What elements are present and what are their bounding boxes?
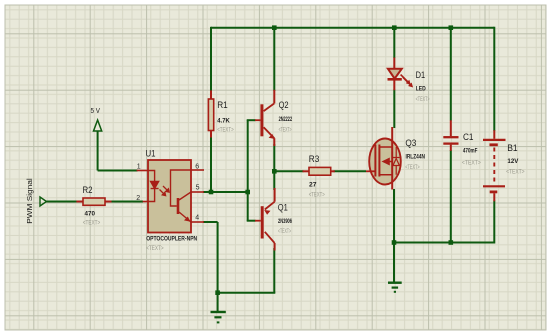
svg-text:2N3906: 2N3906 [278, 218, 292, 225]
wire: 5V stem [98, 131, 138, 171]
pin1 lead [137, 170, 148, 172]
wire: pin4 row [203, 221, 218, 223]
node: rail-D1 junction [392, 25, 397, 30]
svg-text:LED: LED [416, 85, 426, 92]
svg-text:Q3: Q3 [405, 138, 416, 149]
svg-text:4.7K: 4.7K [217, 117, 230, 124]
wire: Q2 collector column [273, 27, 275, 91]
svg-text:PWM Signal: PWM Signal [27, 178, 34, 224]
ground G2 [388, 243, 402, 292]
svg-text:<TEXT>: <TEXT> [83, 219, 101, 226]
svg-text:OPTOCOUPLER-NPN: OPTOCOUPLER-NPN [146, 235, 197, 242]
svg-text:Q1: Q1 [278, 202, 288, 213]
resistor R3 [303, 167, 335, 175]
internal phototransistor [171, 170, 192, 222]
wire: D1 to Q3 drain [393, 90, 395, 129]
power: 5V arrow [94, 120, 102, 131]
wire: D1 column upper [393, 27, 395, 58]
opto U1 [137, 160, 204, 233]
wire: base column vertical [247, 120, 249, 221]
internal LED [148, 171, 159, 202]
svg-text:6: 6 [195, 163, 199, 170]
wire: input to R2 [46, 201, 77, 203]
svg-text:Q2: Q2 [279, 100, 289, 111]
transistor Q1 [255, 188, 275, 251]
resistor R2 [76, 198, 111, 205]
wire: B1 column upper [493, 27, 495, 131]
wire: R3 row left [274, 170, 303, 172]
wire: R2 to pin2 [111, 201, 143, 203]
body [148, 160, 191, 233]
svg-text:470: 470 [85, 210, 96, 217]
svg-text:U1: U1 [146, 149, 156, 160]
svg-text:2N2222: 2N2222 [279, 116, 293, 123]
svg-text:5: 5 [196, 184, 200, 191]
wire: C1 column upper [450, 27, 452, 121]
node: C1-rail junction [449, 240, 454, 245]
wire: pin5 row horizontal [203, 191, 248, 193]
wire: B1 column lower [493, 201, 495, 244]
wire: bottom center horizontal [218, 292, 276, 294]
svg-text:R1: R1 [217, 100, 228, 111]
wire: top power rail [211, 27, 494, 29]
wire: C1 column lower [450, 150, 452, 243]
svg-text:<TEXT>: <TEXT> [146, 245, 164, 252]
svg-text:<TEXT>: <TEXT> [462, 159, 481, 166]
svg-text:<TEXT>: <TEXT> [278, 228, 291, 235]
svg-text:R3: R3 [309, 154, 320, 165]
pin2 lead [143, 201, 148, 203]
wire: pin4 column down [217, 222, 219, 293]
svg-text:5 V: 5 V [91, 108, 101, 115]
wire: R1 bottom to pin5 row [210, 137, 212, 193]
svg-text:1: 1 [137, 164, 141, 171]
svg-text:27: 27 [309, 181, 317, 188]
svg-text:2: 2 [136, 195, 140, 202]
node: pin4-ground junction [215, 290, 220, 295]
svg-text:R2: R2 [83, 185, 93, 196]
svg-text:C1: C1 [463, 132, 474, 143]
node: emitter-R3 junction [272, 169, 277, 174]
node: base column junction [245, 190, 250, 195]
wire: bottom right rail [394, 242, 494, 244]
wire: Q1 collector down [273, 248, 275, 293]
svg-text:<TEXT>: <TEXT> [309, 192, 325, 199]
node: R1-pin5 junction [209, 190, 214, 195]
wire: Q3 source down [393, 189, 395, 243]
svg-text:D1: D1 [416, 70, 426, 81]
node: rail-Q2 junction [272, 25, 277, 30]
LED D1 [388, 58, 413, 91]
svg-text:4: 4 [195, 215, 199, 222]
pin4 lead [191, 221, 204, 223]
pin6 lead [191, 169, 204, 171]
internal emission arrows [160, 186, 170, 196]
transistor Q2 [255, 90, 275, 146]
wire: Q2/Q1 emitter link [273, 144, 275, 190]
capacitor C1 [443, 120, 458, 151]
ground G1 [211, 293, 226, 323]
wire: R1 column upper [210, 27, 212, 91]
svg-text:<TEXT>: <TEXT> [279, 126, 292, 133]
svg-text:470mF: 470mF [463, 148, 478, 155]
svg-text:B1: B1 [507, 143, 518, 154]
MOSFET Q3 [366, 127, 401, 190]
svg-text:12V: 12V [507, 158, 519, 165]
node: source-rail junction [392, 240, 397, 245]
svg-text:<TEXT>: <TEXT> [405, 164, 420, 171]
wire: Q2 base stub [247, 119, 256, 121]
svg-text:IRLZ44N: IRLZ44N [406, 153, 426, 160]
pin5 lead [191, 191, 204, 193]
svg-text:<TEXT>: <TEXT> [506, 169, 525, 176]
wire: R3 row right to gate [334, 170, 367, 172]
resistor R1 [208, 90, 213, 137]
svg-text:<TEXT>: <TEXT> [416, 96, 430, 103]
battery B1 [483, 130, 506, 201]
terminal: PWM input arrow [40, 197, 47, 206]
svg-text:<TEXT>: <TEXT> [217, 127, 234, 134]
node: rail-C1 junction [449, 25, 454, 30]
wire: Q1 base stub [247, 220, 256, 222]
